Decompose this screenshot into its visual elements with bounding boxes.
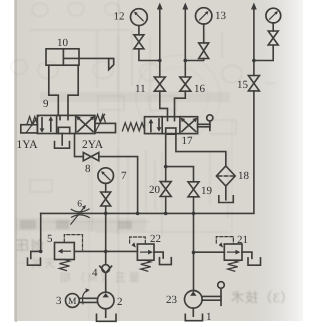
relief valve 22 body: [137, 244, 154, 260]
node gauge-12 branch: [158, 59, 162, 63]
svg-text:5: 5: [47, 233, 53, 245]
filter 18: [216, 166, 235, 186]
relief valve 5 body: [55, 243, 75, 260]
svg-text:M: M: [68, 297, 77, 307]
svg-text:12: 12: [114, 11, 125, 23]
svg-text:22: 22: [150, 233, 161, 245]
node gauge-14 branch: [252, 59, 256, 63]
svg-text:11: 11: [135, 83, 146, 95]
wire valve 19 down to pump 23: [193, 197, 195, 291]
wire valve 8 to valve 9 P port: [75, 134, 84, 157]
shutoff valve 19: [188, 182, 199, 197]
wire pump-2 line to relief 22: [106, 250, 138, 252]
svg-text:3: 3: [56, 295, 62, 307]
pressure gauge 13: [196, 8, 212, 24]
svg-text:10: 10: [57, 37, 69, 49]
wire gauge-12 stem: [138, 26, 140, 35]
throttle valve 6: [71, 205, 90, 224]
wire valve 11 to valve 17 port A: [160, 91, 168, 117]
wire measuring line up-arrow left: [157, 3, 163, 77]
valve 17 manual knob operator: [198, 115, 213, 131]
valve 9 left solenoid 1YA: [21, 116, 39, 133]
shutoff valve under gauge 13: [199, 43, 209, 59]
wire relief 5 to pump-2 line: [74, 250, 105, 252]
wire pump-23 line to relief 21: [194, 251, 225, 253]
directional valve 9 body: [37, 115, 95, 133]
wire valve 20 up to node under valve 17: [165, 134, 167, 182]
valve 17 left position arrows: [149, 119, 162, 132]
valve 17 right position crossed arrows: [181, 118, 197, 132]
valve 17 centre position ports: [166, 117, 176, 135]
shutoff valve 8: [83, 153, 99, 161]
node pump-23 line main: [192, 212, 196, 216]
rotation arrow: [83, 288, 90, 304]
wire right line valve 15 down to main line corner: [194, 91, 254, 213]
valve 9 left spring: [27, 117, 37, 125]
node valve-20 branch: [164, 212, 168, 216]
svg-text:2: 2: [117, 296, 123, 308]
pressure gauge 14: [266, 8, 281, 23]
valve 9 centre position ports: [58, 115, 69, 133]
wire valve 17 right port to filter: [176, 134, 226, 166]
wire relief 21 outlet: [242, 252, 252, 258]
shutoff valve under gauge 14: [268, 31, 278, 45]
valve 9 left position arrows: [40, 116, 54, 133]
svg-text:16: 16: [194, 83, 206, 95]
node valve-8 branch: [136, 212, 140, 216]
shutoff valve 16: [180, 77, 191, 91]
relief valve 22 pilot line: [130, 237, 146, 248]
tank symbol under valve 9: [55, 142, 70, 149]
svg-text:23: 23: [166, 294, 178, 306]
cylinder 10 piston: [62, 49, 64, 65]
valve 17 left spring: [122, 123, 144, 131]
wire node to valve-19 riser: [166, 167, 194, 182]
wire main pressure line: [41, 212, 194, 214]
svg-text:1YA: 1YA: [17, 139, 39, 151]
wire check valve to pump 2: [105, 273, 107, 292]
valve 9 right solenoid 2YA: [95, 114, 116, 132]
relief valve 21 pilot line: [216, 237, 233, 248]
node under valve 17: [164, 165, 168, 169]
svg-text:18: 18: [238, 170, 250, 182]
shutoff valve 20: [160, 182, 171, 197]
valve 9 right position crossed arrows: [76, 116, 94, 132]
node relief-5 outlet: [39, 250, 43, 254]
node pump-2 line relief tee: [104, 250, 108, 254]
wire gauge-7 stem: [105, 184, 107, 192]
relief valve 22 spring: [141, 260, 151, 271]
relief valve 21 spring: [228, 260, 238, 271]
tank symbol left: [28, 258, 41, 265]
pressure gauge 12: [131, 9, 148, 26]
shutoff valve 15: [248, 76, 259, 91]
relief valve 5 spring: [59, 260, 69, 271]
wire relief 22 outlet: [154, 252, 163, 258]
wire pump-2 pressure riser: [105, 213, 107, 264]
relief valve 5 pilot line: [64, 235, 82, 250]
motor-pump coupling: [79, 298, 97, 302]
svg-text:4: 4: [92, 267, 98, 279]
hydraulic cylinder 10 body: [46, 49, 79, 65]
cylinder 10 load hook: [109, 59, 114, 70]
shutoff valve 11: [154, 77, 165, 91]
tank symbol under filter 18: [219, 196, 234, 203]
wire valve 16 to valve 17 port B: [175, 91, 186, 117]
svg-text:8: 8: [85, 163, 91, 175]
wire left drop to relief-5 outlet: [40, 213, 42, 251]
tank symbol relief 22: [160, 258, 172, 265]
wire pump 23 suction: [192, 308, 194, 316]
node pump-23 line relief tee: [192, 251, 196, 255]
electric motor 3: [66, 294, 80, 308]
node gauge-13 branch: [184, 59, 188, 63]
svg-text:15: 15: [237, 79, 249, 91]
svg-text:20: 20: [149, 184, 161, 196]
shutoff valve under gauge 7: [101, 192, 111, 206]
pump 23: [185, 291, 203, 309]
svg-text:13: 13: [215, 10, 227, 22]
pump 2: [97, 292, 114, 309]
wire measuring line up-arrow right: [182, 3, 188, 77]
wire filter to tank: [225, 186, 227, 200]
tank symbol relief 21: [248, 258, 261, 265]
valve 9 right spring: [95, 115, 105, 122]
wire gauge-7 branch: [105, 206, 107, 213]
svg-text:9: 9: [43, 98, 49, 110]
wire gauge-14 stem: [272, 23, 274, 31]
wire gauge-13 branch to node: [185, 59, 203, 61]
wire gauge-14 branch: [254, 45, 273, 61]
wire gauge-13 stem: [203, 24, 205, 43]
tank 1 under pump 23: [185, 314, 202, 320]
shutoff valve under gauge 12: [134, 35, 144, 49]
tank 1 under pump 2: [97, 314, 117, 321]
svg-text:1: 1: [206, 311, 212, 323]
pressure gauge 7: [98, 168, 114, 184]
svg-text:17: 17: [182, 135, 194, 147]
svg-text:7: 7: [121, 170, 127, 182]
cylinder 10 lower column and pipes to valve 9: [49, 65, 78, 115]
svg-text:6: 6: [77, 200, 82, 210]
svg-text:19: 19: [201, 185, 213, 197]
wire gauge-12 branch to node: [139, 49, 160, 61]
node junction dots: [39, 59, 256, 255]
wire valve-20 branch: [165, 197, 167, 214]
svg-text:21: 21: [237, 234, 248, 246]
relief valve 21 body: [224, 244, 242, 260]
cylinder 10 rod: [63, 57, 108, 59]
directional valve 17 body: [145, 117, 198, 134]
pump 23 control lever: [202, 282, 224, 306]
node gauge-7 branch: [104, 212, 108, 216]
wire pump 2 suction: [105, 309, 107, 317]
wire valve 9 tank stub: [61, 134, 63, 146]
check valve 4: [100, 265, 112, 273]
wire valve-8 branch riser: [99, 157, 138, 214]
wire right measuring line with up-arrow: [251, 3, 257, 76]
svg-text:2YA: 2YA: [82, 139, 104, 151]
wire relief-5 outlet to tank: [31, 251, 41, 258]
